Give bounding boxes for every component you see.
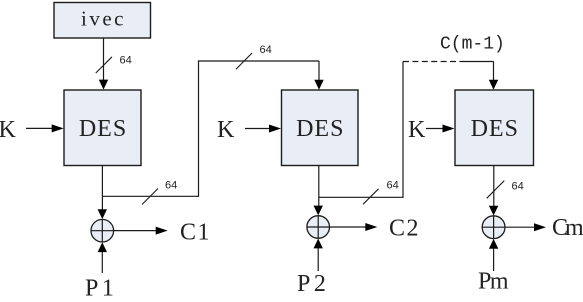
bus-width slash (branch 2) (363, 189, 379, 205)
svg-text:64: 64 (512, 181, 524, 193)
wire DES3 output down (493, 166, 495, 206)
DES block 2 (282, 90, 359, 166)
arrow into XOR3 (489, 206, 498, 216)
arrow into XOR1 (98, 209, 107, 219)
svg-text:ivec: ivec (81, 7, 126, 31)
DES block 3 (455, 90, 534, 166)
svg-text:64: 64 (387, 180, 399, 192)
wire feedback 1 up (198, 61, 200, 197)
wire feedback 2 dashed segment (403, 61, 464, 63)
wire feedback 2 into DES3 (489, 62, 498, 90)
XOR gate 3 (482, 216, 505, 239)
arrow P1 into XOR1 (98, 242, 107, 252)
wire DES1 output down (101, 166, 103, 210)
svg-text:K: K (408, 117, 426, 143)
wire K to DES2 (245, 125, 281, 133)
wire DES2 output down (318, 166, 320, 206)
svg-text:64: 64 (260, 44, 272, 56)
bus-width slash (branch 1) (142, 189, 158, 205)
wire branch to feedback 1 (102, 195, 198, 197)
wire XOR3 to Cm (505, 223, 546, 231)
wire XOR2 to C2 (330, 223, 378, 231)
bus-width slash (feedback 1) (236, 53, 252, 69)
wire ivec to DES1 (99, 38, 108, 89)
wire feedback 2 up (402, 62, 404, 198)
wire branch to feedback 2 (319, 196, 403, 198)
XOR gate 2 (307, 216, 330, 239)
ivec box (54, 3, 151, 39)
svg-text:64: 64 (120, 55, 132, 67)
bus-width slash (ivec wire) (96, 57, 112, 73)
wire XOR1 to C1 (114, 227, 168, 235)
svg-text:Cm: Cm (552, 215, 583, 241)
wire feedback 1 into DES2 (314, 61, 323, 90)
svg-text:P2: P2 (297, 271, 329, 297)
svg-text:DES: DES (471, 116, 519, 142)
svg-text:P1: P1 (85, 276, 117, 302)
DES block 1 (64, 90, 141, 166)
wire from P2 (317, 248, 319, 271)
svg-text:K: K (217, 117, 235, 143)
wire feedback 1 top horizontal (198, 60, 319, 62)
svg-text:DES: DES (79, 116, 127, 142)
wire from Pm (493, 248, 495, 271)
svg-text:C1: C1 (180, 220, 211, 246)
svg-text:C(m-1): C(m-1) (440, 35, 505, 55)
wire K to DES3 (426, 125, 455, 133)
wire from P1 (101, 252, 103, 274)
wire K to DES1 (26, 124, 64, 132)
svg-text:Pm: Pm (478, 269, 509, 295)
XOR gate 1 (91, 219, 114, 242)
arrow into XOR2 (314, 206, 323, 216)
bus-width slash (DES3 output) (487, 181, 505, 199)
svg-text:C2: C2 (389, 216, 420, 242)
arrow P2 into XOR2 (314, 239, 323, 249)
arrow Pm into XOR3 (489, 239, 498, 249)
wire feedback 2 solid segment (464, 61, 494, 63)
svg-text:DES: DES (296, 116, 344, 142)
svg-text:64: 64 (165, 180, 177, 192)
svg-text:K: K (0, 117, 17, 143)
